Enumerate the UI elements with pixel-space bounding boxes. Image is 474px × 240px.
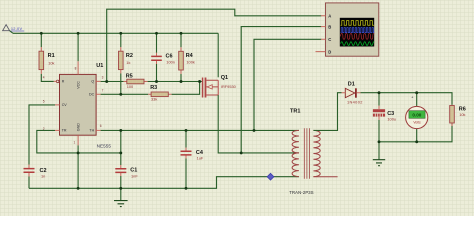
wire Q output to scope A top run xyxy=(107,9,322,81)
voltmeter xyxy=(406,93,428,142)
svg-text:NE555: NE555 xyxy=(97,143,112,148)
svg-text:U1: U1 xyxy=(96,63,103,69)
resistor R1 xyxy=(39,33,55,81)
svg-text:1N4002: 1N4002 xyxy=(347,100,363,105)
oscilloscope xyxy=(316,3,379,56)
wire TR tie xyxy=(37,130,121,153)
capacitor C1 xyxy=(115,130,138,188)
svg-text:Q1: Q1 xyxy=(221,75,228,81)
wire secondary top to D1 xyxy=(313,93,341,131)
resistor R2 xyxy=(119,33,133,94)
ground below C3 xyxy=(373,142,385,166)
svg-text:R2: R2 xyxy=(126,53,133,59)
svg-text:A: A xyxy=(328,14,331,19)
node center-tap terminal (blue diamond) xyxy=(267,173,274,180)
resistor R5 xyxy=(124,73,202,89)
svg-text:IRF9530: IRF9530 xyxy=(221,84,237,89)
wire secondary bottom stub xyxy=(313,176,337,178)
svg-text:100n: 100n xyxy=(166,60,175,65)
wire Q1 drain to primary mid xyxy=(218,95,299,153)
wire DC row xyxy=(101,93,149,95)
wire top right rail xyxy=(361,93,453,105)
wire TH row to transformer xyxy=(101,129,299,131)
svg-text:5: 5 xyxy=(43,99,45,103)
svg-text:R5: R5 xyxy=(126,73,133,79)
svg-text:C1: C1 xyxy=(130,168,137,174)
svg-text:TR1: TR1 xyxy=(290,108,300,114)
svg-text:Volts: Volts xyxy=(413,121,421,125)
svg-text:6: 6 xyxy=(100,124,102,128)
wire Q row xyxy=(101,81,124,83)
svg-text:TRAN-2P3S: TRAN-2P3S xyxy=(289,190,313,195)
svg-text:C: C xyxy=(328,37,331,42)
ground below C1 xyxy=(114,188,128,206)
svg-text:1uF: 1uF xyxy=(197,156,204,161)
diode D1 1N4002 xyxy=(342,81,363,104)
svg-text:CV: CV xyxy=(62,103,68,107)
U1 pin names xyxy=(62,80,95,133)
transistor Q1 IRF9530 xyxy=(202,33,237,97)
svg-text:D1: D1 xyxy=(348,81,355,87)
svg-text:10k: 10k xyxy=(459,112,465,117)
wire scope B to Q1 drain xyxy=(241,27,321,153)
svg-text:12.0V: 12.0V xyxy=(11,26,23,31)
svg-text:DC: DC xyxy=(89,93,95,97)
svg-text:R4: R4 xyxy=(186,53,194,59)
wire scope C to primary top xyxy=(254,39,321,130)
op-amp U1 NE555 body xyxy=(60,63,112,148)
resistor R4 xyxy=(179,33,195,81)
capacitor C3 100u xyxy=(373,93,396,142)
svg-text:3: 3 xyxy=(102,76,104,80)
svg-text:GND: GND xyxy=(77,123,81,131)
resistor R6 xyxy=(450,105,466,126)
svg-text:TH: TH xyxy=(89,129,94,133)
svg-text:0.00: 0.00 xyxy=(412,113,421,118)
wire main +V rail xyxy=(13,32,218,34)
svg-text:1k: 1k xyxy=(126,60,130,65)
svg-text:8: 8 xyxy=(75,67,77,71)
svg-text:100k: 100k xyxy=(186,60,194,65)
svg-text:10k: 10k xyxy=(48,61,54,66)
capacitor C6 xyxy=(151,33,175,81)
wire VCC pin 8 xyxy=(77,33,79,61)
svg-text:TR: TR xyxy=(62,129,67,133)
svg-text:1n: 1n xyxy=(41,174,45,179)
wire GND pin 1 down xyxy=(77,145,79,188)
U1 pin numbers xyxy=(43,67,104,145)
capacitor C4 xyxy=(181,130,204,188)
svg-text:B: B xyxy=(328,24,331,29)
wire bottom right rail xyxy=(379,123,452,142)
svg-text:R3: R3 xyxy=(150,85,157,91)
U1 pin R bubble xyxy=(56,80,59,83)
svg-text:100: 100 xyxy=(127,84,134,89)
svg-text:VCC: VCC xyxy=(77,81,81,89)
svg-text:33k: 33k xyxy=(151,97,157,102)
svg-text:7: 7 xyxy=(102,88,104,92)
svg-text:4: 4 xyxy=(43,76,45,80)
svg-text:R1: R1 xyxy=(48,53,55,59)
wire CV to C2 xyxy=(29,105,55,165)
svg-text:100u: 100u xyxy=(387,117,396,122)
capacitor C2 xyxy=(24,165,47,189)
svg-text:1nF: 1nF xyxy=(131,174,138,179)
wire bottom rail xyxy=(29,177,299,189)
terminal VCC input xyxy=(3,25,25,34)
svg-text:D: D xyxy=(328,49,331,54)
resistor R3 xyxy=(148,82,199,102)
svg-text:1: 1 xyxy=(74,141,76,145)
svg-text:Q: Q xyxy=(91,80,94,84)
transformer TR1 xyxy=(289,108,320,194)
U1 pin stubs xyxy=(54,61,101,145)
svg-text:R: R xyxy=(62,80,65,84)
